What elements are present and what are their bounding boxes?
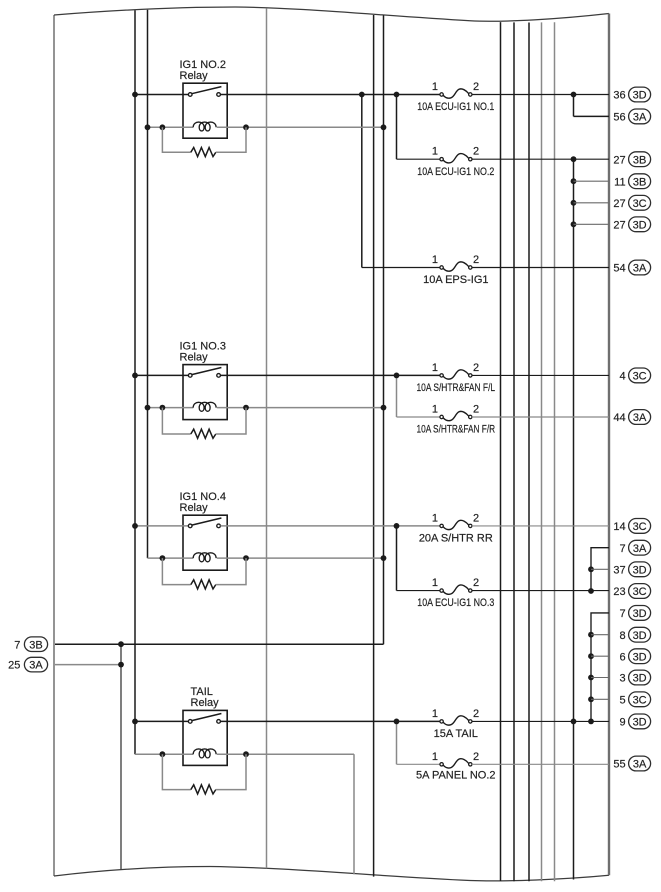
svg-text:2: 2 (473, 512, 479, 524)
wire stub terminal 27-3D (574, 223, 610, 225)
svg-text:3: 3 (619, 673, 625, 685)
svg-text:1: 1 (432, 146, 438, 158)
svg-text:9: 9 (619, 717, 625, 729)
svg-text:1: 1 (432, 577, 438, 589)
svg-text:3A: 3A (633, 263, 647, 275)
relay TAIL box (183, 710, 227, 765)
wire terminal 7-3B feed to coil bus D (55, 643, 384, 645)
svg-text:11: 11 (614, 176, 625, 188)
wire fuse F7 output (472, 590, 609, 592)
svg-text:3A: 3A (633, 112, 647, 124)
svg-text:1: 1 (432, 751, 438, 763)
fuse F8 (15A TAIL) (440, 720, 443, 723)
svg-text:36: 36 (613, 90, 625, 102)
svg-text:15A TAIL: 15A TAIL (434, 728, 478, 740)
relay IG1 NO.2 coil (193, 122, 216, 131)
relay IG1 NO.3 box (183, 365, 227, 420)
node junctions at bus x=591 (588, 566, 594, 572)
svg-text:Relay: Relay (180, 502, 209, 514)
relay IG1 NO.4 coil (193, 553, 216, 562)
wire vertical bus x=373.6 full height (373, 15, 375, 877)
svg-text:56: 56 (613, 112, 625, 124)
wire vertical gray line x=354 (TAIL relay coil to bottom edge) (353, 754, 355, 874)
svg-text:3C: 3C (633, 371, 647, 383)
svg-text:Relay: Relay (180, 351, 209, 363)
relay IG1 NO.3 switch contacts (188, 374, 192, 378)
wire vertical bus A (relay switch feed) x=135 (134, 10, 136, 754)
wire vertical bus x=500.5 full height (500, 22, 502, 881)
fuse F5 (10A S/HTR&amp;FAN F/R) (440, 415, 443, 418)
fuse F9 (5A PANEL NO.2) (440, 763, 443, 766)
wire drop relay IG1 NO.3 row to fuse S/HTR&FAN F/R x=396.5 (396, 375, 398, 417)
wire stub terminal 37-3D (591, 568, 609, 570)
wire stub terminal 5-3C (591, 698, 609, 700)
wire terminal 25-3A feed (55, 664, 121, 666)
svg-text:3D: 3D (633, 608, 647, 620)
svg-text:3D: 3D (633, 717, 647, 729)
svg-text:44: 44 (613, 412, 625, 424)
relay IG1 NO.3 switch blade (192, 368, 222, 375)
svg-text:27: 27 (613, 154, 625, 166)
resistor across relay IG1 NO.2 coil (162, 127, 190, 152)
wire vertical bus x=573.5 from 27-3B node to bottom edge (573, 159, 575, 879)
page border top edge (54, 7, 609, 21)
page border bottom edge (54, 867, 609, 881)
svg-text:10A EPS-IG1: 10A EPS-IG1 (423, 274, 488, 286)
wire switch feed from bus A to relay IG1 NO.4 (135, 525, 188, 527)
svg-text:3C: 3C (633, 694, 647, 706)
wire vertical bus D (coil common) x=383.5 (383, 15, 385, 644)
svg-text:25: 25 (8, 660, 20, 672)
svg-text:3B: 3B (29, 639, 42, 651)
wire feed to fuse 10A EPS-IG1 (362, 267, 440, 269)
svg-text:7: 7 (619, 543, 625, 555)
relay TAIL switch contacts (188, 720, 192, 724)
fuse F4 (10A S/HTR&amp;FAN F/L) (440, 374, 443, 377)
page border left edge (53, 15, 55, 876)
svg-text:3B: 3B (633, 154, 646, 166)
wire relay IG1 NO.2 coil feed (left) (148, 126, 194, 128)
svg-text:3A: 3A (633, 759, 647, 771)
wire relay IG1 NO.2 coil output (right) (217, 126, 384, 128)
svg-text:2: 2 (473, 577, 479, 589)
svg-text:10A S/HTR&FAN F/L: 10A S/HTR&FAN F/L (417, 382, 496, 394)
svg-text:23: 23 (613, 586, 625, 598)
wire fuse F3 output (472, 267, 609, 269)
wire feed to fuse 10A S/HTR&amp;FAN F/R (397, 416, 440, 418)
wire link terminal 56 (L-shape) x=573.5 (573, 95, 575, 117)
svg-text:3A: 3A (633, 412, 647, 424)
wire drop TAIL relay row to fuse PANEL NO.2 x=396.5 (396, 721, 398, 764)
relay IG1 NO.4 box (183, 515, 227, 570)
svg-text:14: 14 (613, 521, 625, 533)
wire relay IG1 NO.4 coil output (right) (217, 557, 384, 559)
svg-text:1: 1 (432, 254, 438, 266)
svg-text:3C: 3C (633, 521, 647, 533)
wire stub terminal 27-3C (574, 202, 610, 204)
svg-text:3D: 3D (633, 651, 647, 663)
wire vertical gray harness line x=266 (266, 9, 268, 869)
wire relay IG1 NO.2 switch output (220, 94, 440, 96)
svg-text:4: 4 (619, 371, 625, 383)
page border right edge (608, 14, 610, 876)
svg-text:3D: 3D (633, 219, 647, 231)
wire relay TAIL coil feed (left) (135, 753, 193, 755)
svg-text:10A ECU-IG1 NO.2: 10A ECU-IG1 NO.2 (417, 166, 494, 178)
svg-text:1: 1 (432, 512, 438, 524)
svg-text:10A ECU-IG1 NO.1: 10A ECU-IG1 NO.1 (417, 101, 494, 113)
svg-text:2: 2 (473, 362, 479, 374)
svg-text:20A S/HTR RR: 20A S/HTR RR (419, 533, 493, 545)
relay IG1 NO.4 switch contacts (188, 524, 192, 528)
wire stub terminal 56-3A (574, 115, 610, 117)
svg-text:37: 37 (613, 564, 625, 576)
svg-text:3D: 3D (633, 673, 647, 685)
svg-text:8: 8 (619, 630, 625, 642)
svg-text:3A: 3A (633, 543, 647, 555)
svg-text:7: 7 (14, 639, 20, 651)
resistor across relay TAIL coil (162, 754, 190, 789)
wire stub terminal 6-3D (591, 655, 609, 657)
wire relay IG1 NO.4 switch output (220, 525, 440, 527)
wire drop relay IG1 NO.4 row to fuse ECU-IG1 NO.3 x=396.5 (396, 526, 398, 591)
fuse F7 (10A ECU-IG1 NO.3) (440, 589, 443, 592)
relay IG1 NO.2 switch blade (192, 87, 222, 94)
svg-text:3C: 3C (633, 586, 647, 598)
svg-text:3C: 3C (633, 198, 647, 210)
svg-text:2: 2 (473, 81, 479, 93)
svg-text:1: 1 (432, 362, 438, 374)
svg-text:1: 1 (432, 708, 438, 720)
svg-text:7: 7 (619, 608, 625, 620)
resistor across relay IG1 NO.4 coil (162, 558, 190, 585)
node junctions on rows at bus x=573.5 (571, 156, 577, 162)
svg-text:6: 6 (619, 651, 625, 663)
svg-text:2: 2 (473, 751, 479, 763)
wire switch feed from bus A to relay TAIL (135, 720, 188, 722)
fuse F2 (10A ECU-IG1 NO.2) (440, 158, 443, 161)
relay IG1 NO.2 switch contacts (188, 93, 192, 97)
svg-text:55: 55 (613, 759, 625, 771)
svg-text:2: 2 (473, 254, 479, 266)
wire vertical bus B (relay coil feed) x=148 (147, 10, 149, 558)
svg-text:3B: 3B (633, 176, 646, 188)
wire relay TAIL switch output (220, 720, 440, 722)
relay IG1 NO.2 box (183, 83, 227, 138)
wire switch feed from bus A to relay IG1 NO.3 (135, 374, 188, 376)
wire stub terminal 8-3D (591, 634, 609, 636)
svg-text:54: 54 (613, 263, 625, 275)
wire switch feed from bus A to relay IG1 NO.2 (135, 94, 188, 96)
wire relay IG1 NO.4 coil feed (left) (148, 557, 194, 559)
svg-text:5A PANEL NO.2: 5A PANEL NO.2 (416, 769, 495, 781)
svg-text:27: 27 (613, 219, 625, 231)
wire fuse F1 output (472, 94, 609, 96)
wire vertical bus x=529 full height (528, 23, 530, 882)
wire vertical bus x=514 full height (513, 22, 515, 881)
fuse F3 (10A EPS-IG1) (440, 266, 443, 269)
wire fuse F6 output (472, 525, 609, 527)
svg-text:27: 27 (613, 198, 625, 210)
svg-text:Relay: Relay (180, 70, 209, 82)
svg-text:3D: 3D (633, 90, 647, 102)
wire fuse F9 output (472, 763, 609, 765)
svg-text:5: 5 (619, 694, 625, 706)
wire relay TAIL coil output (right) (217, 753, 354, 755)
wire relay IG1 NO.3 switch output (220, 374, 440, 376)
wire stub terminal 3-3D (591, 677, 609, 679)
svg-text:3A: 3A (29, 660, 43, 672)
svg-text:2: 2 (473, 146, 479, 158)
svg-text:3D: 3D (633, 564, 647, 576)
wire fuse F2 output (472, 158, 609, 160)
svg-text:2: 2 (473, 708, 479, 720)
wire feed to fuse 10A ECU-IG1 NO.2 (397, 158, 440, 160)
wire feed to fuse 5A PANEL NO.2 (397, 763, 440, 765)
svg-text:1: 1 (432, 81, 438, 93)
wire fuse F8 output (472, 720, 609, 722)
wire relay IG1 NO.3 coil output (right) (217, 407, 384, 409)
relay TAIL coil (193, 749, 216, 758)
fuse F1 (10A ECU-IG1 NO.1) (440, 93, 443, 96)
node junctions relay rows (394, 373, 400, 379)
wire stub terminal 11-3B (574, 180, 610, 182)
wire vertical bus to bottom edge at x=121 (120, 644, 122, 869)
relay TAIL switch blade (192, 714, 222, 721)
wire drop relay IG1 NO.2 row to fuse ECU-IG1 NO.2 x=396.5 (396, 95, 398, 160)
wire fuse F4 output (472, 374, 609, 376)
svg-text:10A ECU-IG1 NO.3: 10A ECU-IG1 NO.3 (417, 597, 494, 609)
relay IG1 NO.4 switch blade (192, 518, 222, 525)
svg-text:Relay: Relay (191, 697, 220, 709)
wire vertical link terminals 7-3D..9-3D x=591 (591, 613, 609, 722)
svg-text:2: 2 (473, 404, 479, 416)
svg-text:10A S/HTR&FAN F/R: 10A S/HTR&FAN F/R (417, 424, 496, 436)
fuse F6 (20A S/HTR RR) (440, 524, 443, 527)
svg-text:3D: 3D (633, 630, 647, 642)
node junctions on row 36-3D (359, 92, 365, 98)
svg-text:1: 1 (432, 404, 438, 416)
relay IG1 NO.3 coil (193, 402, 216, 411)
wire vertical gray bus x=541.5 full height (541, 22, 543, 881)
resistor across relay IG1 NO.3 coil (162, 408, 190, 434)
wire fuse F5 output (472, 416, 609, 418)
wire feed to fuse 10A ECU-IG1 NO.3 (397, 590, 440, 592)
wire vertical link terminals 7-3A/37-3D/23-3C x=591 (591, 548, 609, 591)
wire relay IG1 NO.3 coil feed (left) (148, 407, 194, 409)
wire vertical from node on row 36 down to EPS-IG1 fuse x=361.8 (361, 95, 363, 268)
wire vertical gray bus x=554.5 full height (554, 22, 556, 881)
